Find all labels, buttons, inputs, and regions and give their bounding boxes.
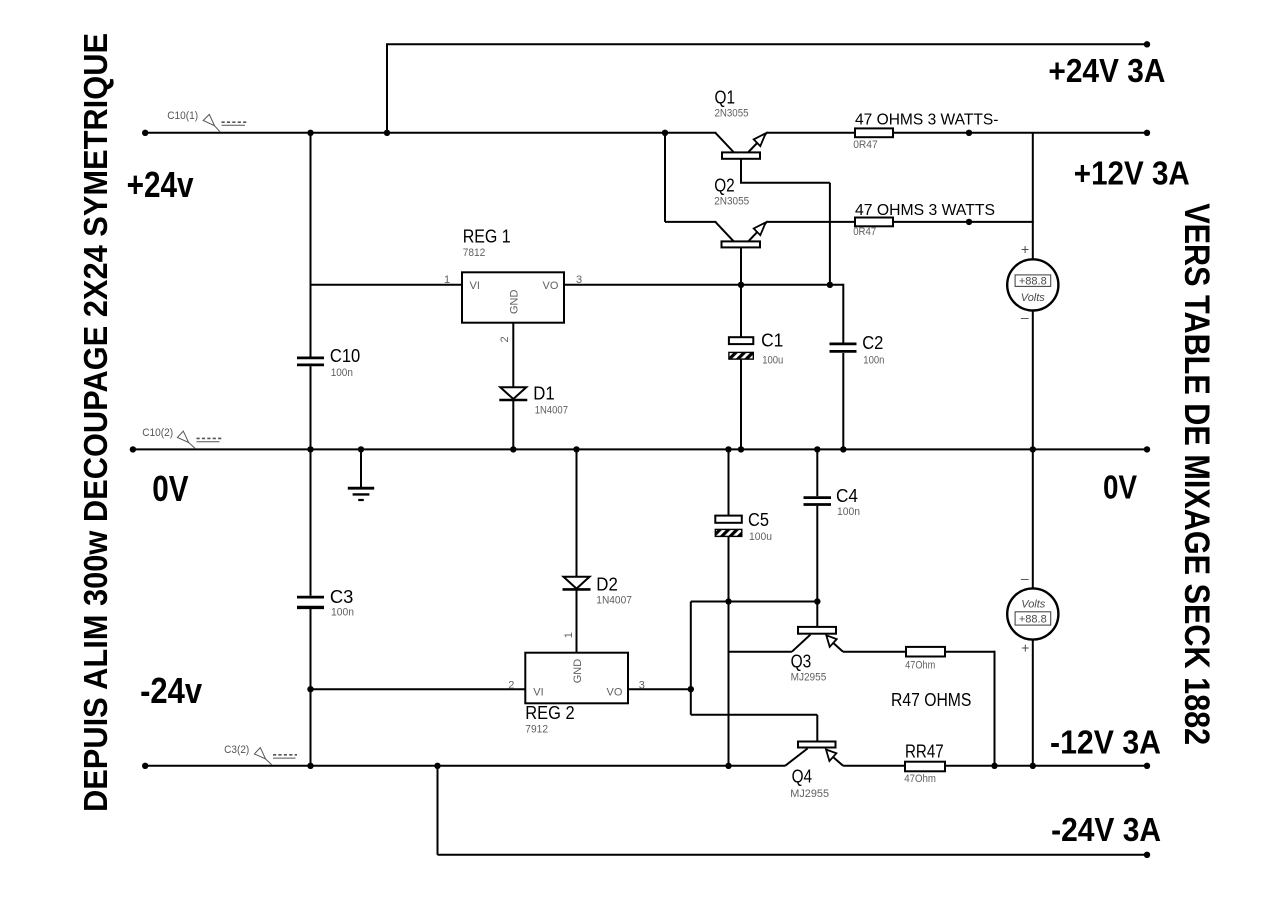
wire Q1 base jog horizontal	[740, 182, 830, 184]
svg-text:Volts: Volts	[1021, 292, 1046, 304]
svg-text:Q1: Q1	[715, 88, 736, 108]
capacitor C3	[297, 597, 324, 607]
wire Q1 base down	[740, 159, 742, 183]
svg-text:D1: D1	[533, 384, 554, 404]
transistor Q2	[715, 222, 766, 248]
svg-text:0V: 0V	[1103, 469, 1137, 506]
voltmeter M2	[1007, 588, 1058, 639]
junction dot node +24v input	[142, 130, 148, 136]
wire +24v rail down to C10	[310, 133, 312, 357]
svg-text:3: 3	[576, 274, 582, 286]
junction dot junction voltmeter M2/-12V rail	[1030, 763, 1036, 769]
wire REG2 output pin 3	[628, 688, 691, 690]
wire -12V rail from Q4 emitter to output	[843, 765, 1147, 767]
svg-text:REG 1: REG 1	[463, 226, 511, 246]
junction dot junction R47 loop/-12V rail	[991, 763, 997, 769]
wire C1 to 0V rail	[740, 360, 742, 450]
svg-text:C2: C2	[862, 333, 883, 353]
svg-text:100n: 100n	[837, 506, 860, 518]
svg-text:VI: VI	[470, 280, 480, 292]
svg-text:+12V 3A: +12V 3A	[1074, 154, 1190, 191]
net flag C10(2)	[177, 431, 221, 449]
junction dot junction ground	[358, 446, 364, 452]
wire 0V rail down to voltmeter M2	[1032, 449, 1034, 588]
diode D1	[499, 387, 527, 400]
svg-text:-12V 3A: -12V 3A	[1050, 723, 1161, 760]
junction dot junction C5 line/base drive	[725, 598, 731, 604]
svg-text:+88.8: +88.8	[1019, 275, 1047, 287]
junction dot junction C3 line/bottom rail	[307, 763, 313, 769]
wire vertical from top rail to +24v rail	[386, 43, 388, 133]
wire 0V rail down to C4	[816, 449, 818, 496]
svg-text:1: 1	[563, 632, 575, 638]
wire C3 to -24v rail	[310, 609, 312, 689]
wire Q3 emitter to 47Ohm resistor	[843, 651, 906, 653]
wire top +24V 3A rail	[387, 43, 1147, 45]
wire base drive line to Q3 base	[691, 601, 818, 603]
svg-text:-24v: -24v	[140, 670, 202, 711]
transistor Q1	[715, 133, 766, 159]
diode D2	[563, 577, 591, 590]
svg-text:7812: 7812	[463, 247, 486, 259]
wire +12V rail from resistor to output	[893, 132, 1147, 134]
svg-text:VI: VI	[533, 686, 543, 698]
svg-text:2N3055: 2N3055	[715, 108, 749, 120]
capacitor C4	[804, 498, 832, 505]
wire voltmeter M2 to -12V rail	[1032, 639, 1034, 765]
svg-text:47Ohm: 47Ohm	[905, 659, 935, 671]
wire D1 to 0V rail	[512, 401, 514, 450]
svg-text:C3: C3	[330, 587, 354, 607]
svg-text:–: –	[1021, 570, 1029, 586]
wire C5 down to bottom rail	[728, 537, 730, 766]
transistor Q3	[792, 627, 843, 652]
svg-text:2: 2	[508, 680, 514, 692]
wire down to -24V 3A rail	[437, 766, 439, 855]
svg-text:100n: 100n	[331, 607, 354, 619]
resistor R4 RR47 box	[905, 762, 945, 772]
capacitor C5	[715, 516, 742, 537]
svg-text:C4: C4	[836, 486, 858, 506]
svg-text:1: 1	[444, 274, 450, 286]
svg-text:R47 OHMS: R47 OHMS	[891, 690, 971, 710]
transistor Q4	[785, 742, 843, 766]
svg-text:C5: C5	[748, 510, 769, 530]
svg-text:+24v: +24v	[127, 164, 194, 205]
svg-text:REG 2: REG 2	[525, 703, 574, 723]
junction dot junction C4/Q3 base	[814, 598, 820, 604]
wire C2 to 0V rail	[842, 353, 844, 449]
wire C10 to 0V rail	[310, 366, 312, 449]
wire +12V rail from Q1 emitter to resistor	[766, 132, 855, 134]
wire 0V rail down to C5	[728, 449, 730, 515]
capacitor C2	[830, 344, 857, 352]
wire voltmeter M1 to 0V rail	[1032, 310, 1034, 449]
wire 0V rail down to D2	[576, 449, 578, 576]
junction dot junction D1/0V	[510, 446, 516, 452]
junction dot junction Q2 base / REG1 out	[738, 282, 744, 288]
wire C4 down to Q3 base bar	[816, 506, 818, 627]
voltmeter M1	[1007, 259, 1058, 310]
svg-text:1N4007: 1N4007	[596, 595, 632, 607]
wire +12V rail down to voltmeter M1	[1032, 133, 1034, 260]
svg-text:C10(1): C10(1)	[167, 110, 198, 122]
wire Q1 base jog vertical to REG1 output line	[829, 183, 831, 285]
ground symbol	[348, 488, 374, 500]
svg-text:100n: 100n	[331, 367, 353, 379]
junction dot junction -24v rail	[307, 686, 313, 692]
svg-text:+88.8: +88.8	[1019, 613, 1047, 625]
svg-text:GND: GND	[509, 290, 521, 315]
net flag C3(2)	[254, 748, 297, 765]
svg-text:100n: 100n	[863, 354, 884, 366]
svg-text:Q2: Q2	[714, 176, 735, 196]
svg-text:DEPUIS ALIM 300w DECOUPAGE 2X2: DEPUIS ALIM 300w DECOUPAGE 2X24 SYMETRIQ…	[77, 33, 114, 812]
wire -24v rail down to bottom rail	[310, 689, 312, 766]
wire corner down to C2	[842, 284, 844, 343]
resistor R2 0R47 box	[855, 218, 893, 227]
junction dot junction C10/0V	[307, 446, 313, 452]
regulator U2 REG 2 box	[525, 653, 628, 704]
svg-text:0R47: 0R47	[853, 139, 878, 151]
svg-text:0V: 0V	[152, 468, 188, 509]
svg-text:100u: 100u	[762, 354, 783, 366]
junction dot node -12V 3A output	[1144, 763, 1150, 769]
junction dot junction C10/+24v rail	[307, 130, 313, 136]
svg-text:RR47: RR47	[905, 741, 944, 761]
junction dot junction C2/0V	[840, 446, 846, 452]
svg-text:0R47: 0R47	[853, 226, 876, 238]
junction dot junction C1/0V	[738, 446, 744, 452]
wire down to Q4 base bar	[816, 715, 818, 742]
wire REG1 output pin 3 to bases	[564, 284, 843, 286]
junction dot junction voltmeter/0V	[1030, 446, 1036, 452]
junction dot node +24V 3A output	[1144, 41, 1150, 47]
svg-text:MJ2955: MJ2955	[790, 788, 829, 800]
junction dot junction Q1 collector	[662, 130, 668, 136]
junction dot junction Q1 base / REG1 out	[827, 282, 833, 288]
wire -24V 3A bottom rail	[438, 854, 1148, 856]
svg-text:Volts: Volts	[1021, 599, 1046, 611]
wire second resistor to voltmeter branch	[893, 221, 1034, 223]
junction dot junction C4/0V	[814, 446, 820, 452]
svg-text:–: –	[1021, 309, 1029, 325]
svg-text:C10(2): C10(2)	[142, 427, 173, 439]
svg-text:47Ohm: 47Ohm	[904, 773, 936, 785]
junction dot junction second rail	[966, 219, 972, 225]
wire D2 to REG2 GND pin 1	[576, 589, 578, 653]
wire corner down to -12V rail	[994, 651, 996, 766]
svg-text:-24V 3A: -24V 3A	[1051, 811, 1161, 848]
capacitor C1	[729, 337, 753, 359]
junction dot node -24v input	[142, 763, 148, 769]
wire 47Ohm resistor to corner	[945, 651, 995, 653]
svg-text:3: 3	[639, 680, 645, 692]
wire +24v rail left segment	[145, 132, 716, 134]
junction dot junction D2/0V	[573, 446, 579, 452]
junction dot node +12V 3A output	[1144, 130, 1150, 136]
wire REG1 GND pin 2 to D1	[512, 323, 514, 387]
wire Q2 collector feed horizontal	[665, 221, 716, 223]
svg-text:MJ2955: MJ2955	[791, 671, 827, 683]
svg-text:GND: GND	[572, 659, 584, 684]
wire bottom rail left of Q4	[145, 765, 785, 767]
junction dot junction +12V rail	[966, 130, 972, 136]
regulator U1 REG 1 box	[462, 272, 564, 322]
svg-text:47 OHMS 3 WATTS-: 47 OHMS 3 WATTS-	[855, 112, 998, 129]
svg-text:+: +	[1021, 241, 1029, 257]
wire 0V rail	[133, 448, 1147, 450]
svg-text:+: +	[1021, 639, 1029, 655]
svg-text:C1: C1	[761, 330, 783, 350]
junction dot junction REG2 output	[688, 686, 694, 692]
resistor R3 47Ohm box	[906, 647, 945, 657]
svg-text:1N4007: 1N4007	[535, 404, 568, 416]
junction dot junction C5 line/bottom rail	[725, 763, 731, 769]
svg-text:7912: 7912	[525, 724, 548, 736]
wire Q2 emitter to second resistor	[766, 221, 855, 223]
junction dot junction -24V drop	[434, 763, 440, 769]
capacitor C10	[297, 358, 324, 365]
svg-text:VO: VO	[543, 280, 559, 292]
wire base drive line to Q4 base	[691, 714, 818, 716]
svg-text:100u: 100u	[749, 531, 772, 543]
ground stem	[360, 449, 362, 487]
wire REG1 input pin 1	[311, 284, 463, 286]
junction dot junction C5/0V	[725, 446, 731, 452]
junction dot node -24V 3A output	[1144, 852, 1150, 858]
junction dot node 0V output	[1144, 446, 1150, 452]
svg-text:C10: C10	[330, 346, 360, 366]
svg-text:2: 2	[499, 336, 511, 342]
net flag C10(1)	[203, 114, 246, 132]
svg-text:47 OHMS 3 WATTS: 47 OHMS 3 WATTS	[855, 202, 995, 219]
svg-text:2N3055: 2N3055	[714, 195, 749, 207]
junction dot junction top rail	[384, 130, 390, 136]
wire Q2 base down to C1	[740, 248, 742, 337]
wire 0V rail down to C3	[310, 449, 312, 595]
resistor R1 0R47 box	[855, 128, 893, 137]
wire -24v rail to REG2 input pin 2	[311, 688, 526, 690]
wire Q2 collector feed vertical	[664, 133, 666, 222]
svg-text:VO: VO	[607, 686, 623, 698]
wire Q3 collector horizontal	[729, 651, 792, 653]
junction dot node 0V input	[130, 446, 136, 452]
svg-text:D2: D2	[596, 574, 618, 594]
svg-text:Q3: Q3	[791, 651, 812, 671]
svg-text:VERS TABLE DE MIXAGE SECK 1882: VERS TABLE DE MIXAGE SECK 1882	[1177, 203, 1216, 745]
svg-text:+24V 3A: +24V 3A	[1048, 52, 1165, 89]
wire REG2 output loop vertical	[690, 602, 692, 715]
svg-text:Q4: Q4	[792, 766, 813, 786]
svg-text:C3(2): C3(2)	[224, 744, 249, 756]
